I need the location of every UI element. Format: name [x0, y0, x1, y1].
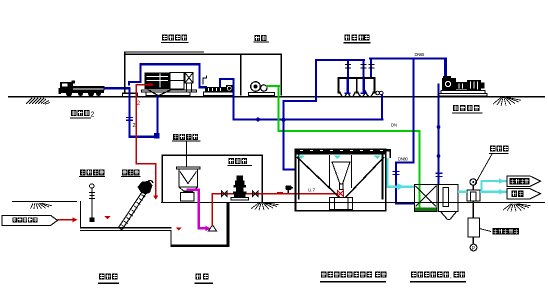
wire: screw pump discharge (blue)	[219, 78, 384, 121]
leader + label carbon filter	[480, 229, 492, 232]
label mixing hopper + leader	[172, 134, 201, 167]
label dosing room	[344, 35, 371, 44]
wire: magenta pipe hopper to sump	[187, 189, 208, 230]
wire: clean water pump suction (blue)	[437, 84, 439, 186]
label sedimentation tank	[320, 272, 387, 283]
vertical slurry pump P4	[231, 176, 249, 201]
gate valve rod	[89, 184, 95, 218]
node dots on underground main	[256, 118, 260, 122]
svg-text:2: 2	[91, 111, 95, 118]
svg-text:2: 2	[133, 123, 136, 129]
filter unit B	[439, 185, 459, 212]
instrument hook	[203, 76, 207, 85]
svg-text:U.7: U.7	[308, 188, 316, 193]
label slurry pump	[228, 158, 253, 166]
label sump	[98, 274, 119, 284]
wire: tank discharge down (blue)	[381, 94, 383, 120]
inlet callout	[2, 215, 58, 225]
wire: red discharge main	[212, 193, 339, 195]
screw pump P1	[204, 85, 235, 95]
small instrument on red line	[285, 185, 293, 193]
sludge valve red	[338, 191, 344, 197]
label valve	[79, 169, 105, 177]
label truck	[70, 110, 95, 118]
red water level mark	[104, 216, 111, 220]
suction foot triangle	[209, 225, 217, 231]
ground line upper	[8, 96, 545, 97]
svg-text:,: ,	[450, 273, 452, 280]
dosing tanks T1 T2	[338, 77, 376, 97]
svg-text:DN: DN	[391, 123, 397, 128]
label pump house	[195, 274, 214, 284]
earth hatch lower right	[503, 204, 531, 212]
wire: cyan through meter	[458, 180, 507, 193]
label clean water pump	[452, 105, 483, 114]
mixer machine M1	[145, 73, 185, 90]
red inlet arrow	[58, 219, 74, 221]
wire: green pipe from P2	[266, 85, 421, 208]
label room1	[161, 35, 189, 43]
tank outlet pump	[376, 91, 380, 95]
wire: red suction riser	[212, 193, 214, 227]
truck	[59, 81, 105, 97]
wire: long blue drop to filter	[395, 59, 415, 205]
building outline	[124, 52, 282, 96]
wire: clarified water out (cyan)	[387, 158, 415, 188]
ground line lower left	[12, 201, 77, 202]
label dosing system	[410, 272, 466, 283]
flow meter assembly	[467, 179, 480, 201]
valve on red line 2	[253, 191, 259, 197]
svg-text:DN80: DN80	[398, 157, 408, 162]
clean water pump P3	[439, 76, 487, 96]
room2 pump P2	[249, 82, 275, 96]
leader to flow meter label	[475, 154, 493, 185]
funnel under mixer	[148, 90, 173, 96]
wire: tank header 1 (blue)	[315, 59, 365, 77]
wire: blue main to sedimentation tank	[283, 59, 318, 171]
svg-text:DN65: DN65	[415, 52, 425, 57]
activated carbon filter	[472, 201, 474, 218]
sump floor	[170, 244, 229, 247]
riser union marks	[345, 64, 375, 69]
screw conveyor	[119, 181, 154, 230]
pit floor double line	[80, 227, 172, 228]
earth hatch left	[26, 98, 50, 104]
label room2	[254, 35, 270, 43]
wire: tank header 2 (blue)	[369, 58, 447, 79]
wire: building inner blue pipe	[128, 63, 207, 88]
sump wall	[227, 202, 230, 247]
mixing hopper	[177, 167, 201, 201]
machine platform	[142, 90, 197, 92]
sedimentation tank	[295, 148, 392, 211]
node: red junction	[277, 192, 283, 195]
wire: truck slurry line (blue)	[104, 87, 158, 138]
threshold step at building left	[122, 93, 138, 94]
valve on red line 1	[222, 191, 228, 197]
wire: blue drop from funnel	[157, 96, 159, 135]
node: junction square	[154, 133, 159, 138]
callout reuse	[507, 176, 541, 186]
valve on blue drop	[126, 117, 133, 118]
earth hatch right upper	[493, 98, 521, 106]
valve on blue drop	[393, 171, 400, 172]
filter unit A	[415, 207, 437, 211]
water level marks cyan	[298, 156, 305, 160]
pit wall	[80, 201, 81, 229]
wire: red pipe from mixer	[136, 84, 157, 196]
earth hatch in pump room	[251, 203, 279, 211]
earth hatch above callout	[31, 203, 53, 209]
ground line lower right	[161, 202, 545, 203]
sump step	[170, 230, 171, 246]
callout discharge	[507, 189, 541, 199]
label screw conveyor	[121, 169, 141, 177]
X-box unit	[185, 73, 193, 93]
pump room outline	[162, 154, 264, 202]
